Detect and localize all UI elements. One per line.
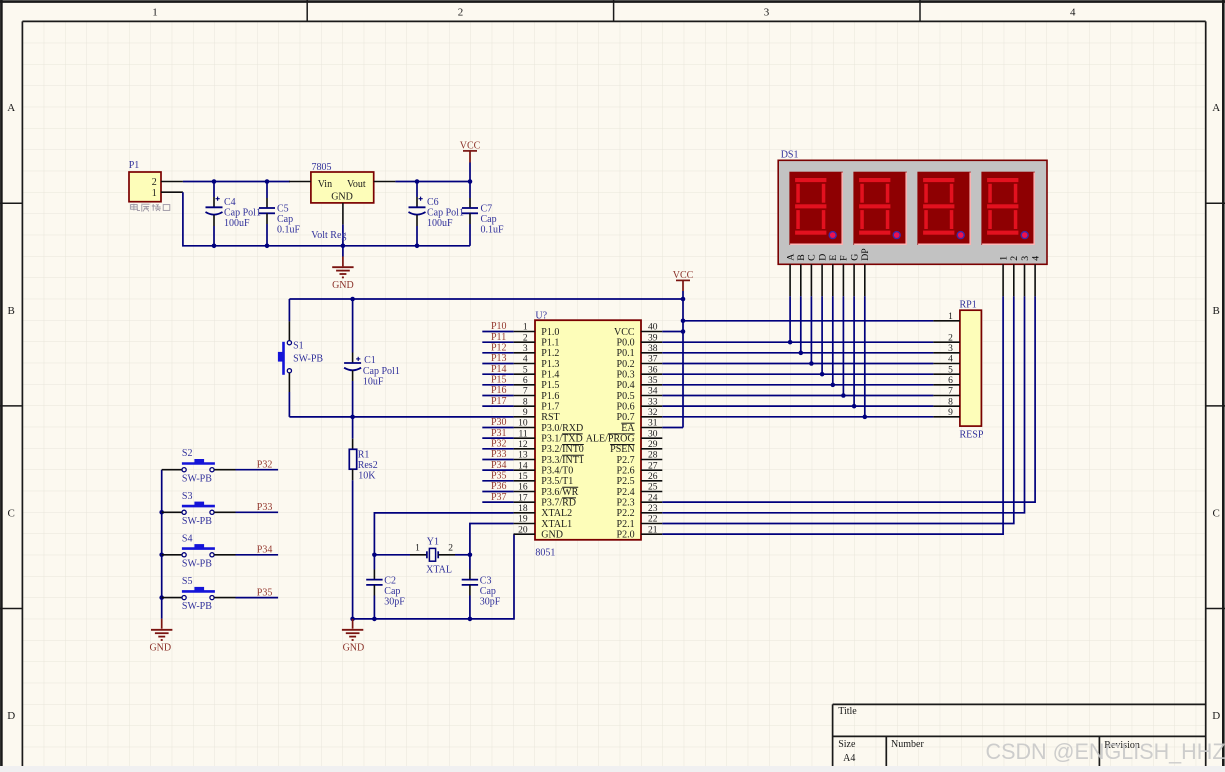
net label P17 xyxy=(482,396,513,407)
svg-text:5: 5 xyxy=(523,365,528,375)
designator C4 xyxy=(224,197,236,208)
svg-text:U?: U? xyxy=(535,310,547,321)
svg-text:P3.6/WR: P3.6/WR xyxy=(541,487,578,498)
comment C7 Cap xyxy=(481,214,497,225)
comment C3 Cap xyxy=(480,586,496,597)
display digit 4 xyxy=(981,172,1035,245)
value C7 0.1uF xyxy=(481,224,505,235)
value C6 100uF xyxy=(427,218,453,229)
svg-text:C7: C7 xyxy=(481,203,493,214)
svg-text:0.1uF: 0.1uF xyxy=(481,224,505,235)
svg-text:27: 27 xyxy=(648,461,658,471)
svg-text:36: 36 xyxy=(648,365,658,375)
svg-text:P37: P37 xyxy=(491,492,507,503)
junction dots key common xyxy=(159,510,164,600)
switch S3 xyxy=(162,502,278,515)
svg-text:19: 19 xyxy=(518,515,528,525)
net label P32 xyxy=(257,459,273,470)
display pin E xyxy=(828,255,839,385)
power port VCC mcu xyxy=(673,270,694,299)
svg-text:XTAL2: XTAL2 xyxy=(541,508,572,519)
svg-text:34: 34 xyxy=(648,387,658,397)
svg-text:39: 39 xyxy=(648,333,658,343)
pin 7 P1.6 xyxy=(514,387,560,402)
svg-text:PSEN: PSEN xyxy=(610,444,634,455)
svg-text:5: 5 xyxy=(948,365,953,375)
junction dots output rail xyxy=(415,179,473,184)
designator R1 xyxy=(358,449,370,460)
net label P15 xyxy=(482,374,513,385)
pin RP1 4 xyxy=(933,355,960,365)
svg-text:F: F xyxy=(839,255,850,261)
wire P0.4 to RP1 pin 6 xyxy=(662,383,933,388)
comment S1 SW-PB xyxy=(293,353,323,364)
pin name overlines xyxy=(562,423,635,498)
comment RP1 RESP xyxy=(960,430,984,441)
svg-text:P0.2: P0.2 xyxy=(617,359,635,370)
pin RP1 3 xyxy=(933,344,960,354)
wire 7805 Vout to VCC node xyxy=(395,181,470,183)
display pin digit 4 xyxy=(1030,256,1041,297)
wire P1 pin1 down to ground rail xyxy=(183,192,343,246)
svg-text:RST: RST xyxy=(541,412,559,423)
capacitor C6 xyxy=(409,182,426,246)
svg-text:P0.0: P0.0 xyxy=(617,338,635,349)
svg-text:P2.3: P2.3 xyxy=(617,498,635,509)
svg-text:C: C xyxy=(807,254,818,261)
pin 15 P3.5/T1 xyxy=(514,472,574,487)
svg-text:13: 13 xyxy=(518,451,528,461)
svg-text:2: 2 xyxy=(458,7,464,19)
svg-text:P1.5: P1.5 xyxy=(541,380,559,391)
svg-text:P1.0: P1.0 xyxy=(541,327,559,338)
svg-text:1: 1 xyxy=(415,544,420,554)
column label 2 xyxy=(458,7,464,19)
net label P16 xyxy=(482,385,513,396)
svg-text:D: D xyxy=(7,710,15,722)
svg-text:P0.4: P0.4 xyxy=(617,380,635,391)
designator C6 xyxy=(427,197,439,208)
svg-text:17: 17 xyxy=(518,493,528,503)
svg-text:1: 1 xyxy=(523,323,528,333)
switch S2 xyxy=(162,459,278,472)
wire P2.2 to display digit 3 xyxy=(662,296,1024,513)
wire P0.7 to RP1 pin 9 xyxy=(662,415,933,420)
svg-text:C4: C4 xyxy=(224,197,236,208)
svg-text:10uF: 10uF xyxy=(363,376,384,387)
value C1 10uF xyxy=(363,376,384,387)
net label P14 xyxy=(482,364,513,375)
svg-text:1: 1 xyxy=(998,256,1009,261)
title block label Size xyxy=(838,739,856,750)
resistor R1 xyxy=(349,417,356,619)
svg-text:1: 1 xyxy=(152,188,157,199)
comment C4 Cap Pol1 xyxy=(224,207,261,218)
pin 5 P1.4 xyxy=(514,365,560,380)
designator 7805 xyxy=(312,162,332,173)
pin 31 EA xyxy=(621,419,662,434)
svg-text:C3: C3 xyxy=(480,575,492,586)
svg-text:P2.4: P2.4 xyxy=(617,487,635,498)
svg-text:0.1uF: 0.1uF xyxy=(277,224,301,235)
ground symbol crystal xyxy=(342,619,364,654)
display digit 2 xyxy=(853,172,907,245)
designator C3 xyxy=(480,575,492,586)
designator S5 xyxy=(182,576,193,587)
net label P32 xyxy=(482,438,513,449)
pin 38 P0.1 xyxy=(617,344,663,359)
connector P1 xyxy=(129,172,183,202)
svg-text:GND: GND xyxy=(332,280,354,291)
junction dots crystal rails xyxy=(372,553,472,558)
wire P0.0 to RP1 pin 2 xyxy=(662,340,933,345)
svg-text:P2.6: P2.6 xyxy=(617,466,635,477)
svg-text:12: 12 xyxy=(518,440,528,450)
wire VCC vertical to EA xyxy=(682,299,684,427)
svg-text:P0.3: P0.3 xyxy=(617,370,635,381)
svg-text:C2: C2 xyxy=(384,575,396,586)
designator P1 xyxy=(129,160,140,171)
svg-text:P1.1: P1.1 xyxy=(541,338,559,349)
comment C1 Cap Pol1 xyxy=(363,366,400,377)
svg-text:EA: EA xyxy=(621,423,635,434)
svg-text:E: E xyxy=(828,255,839,261)
row label C left xyxy=(8,507,15,519)
pin 18 XTAL2 xyxy=(514,504,573,519)
svg-text:100uF: 100uF xyxy=(427,218,453,229)
svg-text:P32: P32 xyxy=(491,438,507,449)
comment S4 SW-PB xyxy=(182,558,212,569)
pin 9 RST xyxy=(514,408,560,423)
svg-text:S2: S2 xyxy=(182,448,193,459)
comment S2 SW-PB xyxy=(182,473,212,484)
pin 17 P3.7/RD xyxy=(514,493,576,508)
title block frame xyxy=(833,704,1206,766)
svg-text:Cap: Cap xyxy=(277,214,293,225)
svg-text:SW-PB: SW-PB xyxy=(182,473,212,484)
svg-text:ALE/PROG: ALE/PROG xyxy=(586,434,635,445)
designator S2 xyxy=(182,448,193,459)
pin number Y1 2 xyxy=(448,544,453,554)
svg-text:P35: P35 xyxy=(491,470,507,481)
svg-text:P34: P34 xyxy=(257,545,273,556)
value C4 100uF xyxy=(224,218,250,229)
svg-text:P3.2/INT0: P3.2/INT0 xyxy=(541,444,584,455)
value C5 0.1uF xyxy=(277,224,301,235)
svg-text:P0.1: P0.1 xyxy=(617,348,635,359)
pin RP1 7 xyxy=(933,387,960,397)
svg-text:P3.3/INT1: P3.3/INT1 xyxy=(541,455,584,466)
svg-text:P2.2: P2.2 xyxy=(617,508,635,519)
svg-text:P0.7: P0.7 xyxy=(617,412,635,423)
switch S4 xyxy=(162,544,278,557)
pin 1 P1.0 xyxy=(514,323,560,338)
net label P13 xyxy=(482,353,513,364)
pin number Y1 1 xyxy=(415,544,420,554)
junction dot RST rail xyxy=(350,415,355,420)
svg-text:P1.6: P1.6 xyxy=(541,391,559,402)
svg-text:Size: Size xyxy=(838,739,856,750)
wire P0.5 to RP1 pin 7 xyxy=(662,393,933,398)
crystal Y1 xyxy=(374,548,470,561)
row label D left xyxy=(7,710,15,722)
junction dots input rails xyxy=(212,179,420,248)
svg-text:35: 35 xyxy=(648,376,658,386)
pin RP1 9 xyxy=(933,408,960,418)
row label A right xyxy=(1212,102,1220,114)
svg-text:C: C xyxy=(1213,507,1220,519)
svg-text:11: 11 xyxy=(518,429,527,439)
svg-text:P31: P31 xyxy=(491,428,507,439)
svg-text:6: 6 xyxy=(948,376,953,386)
designator C5 xyxy=(277,203,289,214)
pin 21 P2.0 xyxy=(617,525,663,540)
row label D right xyxy=(1212,710,1220,722)
svg-text:Number: Number xyxy=(891,739,924,750)
svg-text:P32: P32 xyxy=(257,459,273,470)
resistor pack RP1 body xyxy=(960,310,982,426)
svg-text:Res2: Res2 xyxy=(358,460,378,471)
svg-text:P3.5/T1: P3.5/T1 xyxy=(541,476,573,487)
row label C right xyxy=(1213,507,1220,519)
pin 35 P0.4 xyxy=(617,376,663,391)
display pin digit 2 xyxy=(1009,256,1020,297)
pin 13 P3.3/INT1 xyxy=(514,451,584,466)
display pin C xyxy=(807,254,818,363)
wire P2.1 to display digit 2 xyxy=(662,296,1014,523)
svg-text:VCC: VCC xyxy=(673,270,694,281)
pin 16 P3.6/WR xyxy=(514,483,579,498)
svg-text:30pF: 30pF xyxy=(480,597,501,608)
svg-text:32: 32 xyxy=(648,408,658,418)
svg-text:A: A xyxy=(1212,102,1220,114)
svg-text:GND: GND xyxy=(541,530,563,541)
svg-text:D: D xyxy=(1212,710,1220,722)
net label P35 xyxy=(257,587,273,598)
svg-text:Vin: Vin xyxy=(318,179,332,190)
designator S1 xyxy=(293,340,304,351)
wire VCC rail to reset network xyxy=(289,298,683,300)
svg-text:G: G xyxy=(849,254,860,261)
svg-text:SW-PB: SW-PB xyxy=(182,516,212,527)
pin 25 P2.4 xyxy=(617,483,663,498)
wire P0.2 to RP1 pin 4 xyxy=(662,361,933,366)
svg-text:10: 10 xyxy=(518,419,528,429)
display pin G xyxy=(849,254,860,406)
svg-text:18: 18 xyxy=(518,504,528,514)
pin RP1 1 xyxy=(933,312,960,322)
svg-text:3: 3 xyxy=(948,344,953,354)
svg-text:XTAL: XTAL xyxy=(426,565,452,576)
svg-text:P11: P11 xyxy=(491,332,506,343)
svg-text:P2.0: P2.0 xyxy=(617,530,635,541)
svg-text:Cap Pol1: Cap Pol1 xyxy=(224,207,261,218)
net label P34 xyxy=(482,460,513,471)
svg-text:SW-PB: SW-PB xyxy=(182,558,212,569)
display DS1 body xyxy=(778,160,1047,264)
svg-text:14: 14 xyxy=(518,461,528,471)
svg-text:VCC: VCC xyxy=(460,140,481,151)
capacitor C2 xyxy=(366,555,382,619)
svg-text:P33: P33 xyxy=(257,502,273,513)
svg-text:3: 3 xyxy=(523,344,528,354)
net label P11 xyxy=(482,332,513,343)
svg-text:Cap: Cap xyxy=(481,214,497,225)
svg-text:Y1: Y1 xyxy=(427,536,439,547)
column label 4 xyxy=(1070,7,1076,19)
svg-text:21: 21 xyxy=(648,525,658,535)
svg-text:15: 15 xyxy=(518,472,528,482)
pin 28 P2.7 xyxy=(617,451,663,466)
value C2 30pF xyxy=(384,597,405,608)
svg-text:25: 25 xyxy=(648,483,658,493)
display pin DP xyxy=(860,248,871,417)
wire XTAL2 to crystal left xyxy=(374,513,513,555)
svg-text:7: 7 xyxy=(523,387,528,397)
capacitor C7 xyxy=(462,182,478,246)
svg-text:7: 7 xyxy=(948,387,953,397)
title block label Revision xyxy=(1104,740,1140,751)
svg-text:B: B xyxy=(796,254,807,261)
svg-text:P1.2: P1.2 xyxy=(541,348,559,359)
svg-text:Volt Reg: Volt Reg xyxy=(311,230,346,241)
comment dianyuanjiekou (power connector) xyxy=(131,204,170,212)
svg-text:10K: 10K xyxy=(358,471,376,482)
display pin B xyxy=(796,254,807,353)
net label P10 xyxy=(482,321,513,332)
svg-text:1: 1 xyxy=(948,312,953,322)
net label P36 xyxy=(482,481,513,492)
wire P2.0 to display digit 1 xyxy=(662,296,1003,534)
svg-text:37: 37 xyxy=(648,355,658,365)
svg-text:6: 6 xyxy=(523,376,528,386)
designator C7 xyxy=(481,203,493,214)
svg-text:P2.7: P2.7 xyxy=(617,455,635,466)
display pin digit 1 xyxy=(998,256,1009,297)
pin 8 P1.7 xyxy=(514,397,560,412)
svg-text:C6: C6 xyxy=(427,197,439,208)
pin 36 P0.3 xyxy=(617,365,663,380)
pin RP1 8 xyxy=(933,397,960,407)
svg-text:RESP: RESP xyxy=(960,430,984,441)
pin 6 P1.5 xyxy=(514,376,560,391)
svg-text:3: 3 xyxy=(1020,256,1031,261)
svg-text:Cap: Cap xyxy=(384,586,400,597)
svg-text:Cap Pol1: Cap Pol1 xyxy=(427,207,464,218)
svg-text:Cap Pol1: Cap Pol1 xyxy=(363,366,400,377)
display digit 3 xyxy=(917,172,971,245)
junction dots VCC vertical xyxy=(681,319,686,334)
svg-text:P34: P34 xyxy=(491,460,507,471)
capacitor C3 xyxy=(462,555,478,619)
designator S4 xyxy=(182,533,193,544)
svg-text:CSDN @ENGLISH_HHZ: CSDN @ENGLISH_HHZ xyxy=(986,739,1225,764)
svg-text:16: 16 xyxy=(518,483,528,493)
svg-text:P0.5: P0.5 xyxy=(617,391,635,402)
svg-text:P1.7: P1.7 xyxy=(541,402,559,413)
wire P0.1 to RP1 pin 3 xyxy=(662,351,933,356)
net label P34 xyxy=(257,545,273,556)
comment U? 8051 xyxy=(535,548,555,559)
svg-text:2: 2 xyxy=(523,333,528,343)
comment Y1 XTAL xyxy=(426,565,452,576)
svg-text:P10: P10 xyxy=(491,321,507,332)
svg-text:P36: P36 xyxy=(491,481,507,492)
wire EA to VCC vertical xyxy=(662,426,683,428)
svg-text:XTAL1: XTAL1 xyxy=(541,519,572,530)
designator S3 xyxy=(182,491,193,502)
top margin dividers xyxy=(307,0,920,21)
svg-text:8051: 8051 xyxy=(535,548,555,559)
svg-text:38: 38 xyxy=(648,344,658,354)
designator Y1 xyxy=(427,536,439,547)
wire P0.6 to RP1 pin 8 xyxy=(662,404,933,409)
svg-text:P2.5: P2.5 xyxy=(617,476,635,487)
comment S5 SW-PB xyxy=(182,601,212,612)
svg-text:S3: S3 xyxy=(182,491,193,502)
wire P2.3 to display digit 4 xyxy=(662,296,1035,502)
pin RP1 5 xyxy=(933,365,960,375)
ground symbol key common xyxy=(149,619,172,654)
svg-text:3: 3 xyxy=(764,7,770,19)
pin 4 P1.3 xyxy=(514,355,560,370)
svg-text:30pF: 30pF xyxy=(384,597,405,608)
pin 22 P2.1 xyxy=(617,515,663,530)
svg-text:P1.3: P1.3 xyxy=(541,359,559,370)
svg-text:P3.0/RXD: P3.0/RXD xyxy=(541,423,583,434)
mcu U? body xyxy=(535,320,641,540)
svg-text:30: 30 xyxy=(648,429,658,439)
pin 14 P3.4/T0 xyxy=(514,461,574,476)
comment R1 Res2 xyxy=(358,460,378,471)
net label P12 xyxy=(482,342,513,353)
pin 34 P0.5 xyxy=(617,387,663,402)
power port VCC input rail xyxy=(460,140,481,181)
wire P1 pin2 to 7805 Vin xyxy=(183,181,290,183)
pin RP1 6 xyxy=(933,376,960,386)
svg-text:9: 9 xyxy=(948,408,953,418)
svg-text:4: 4 xyxy=(948,355,953,365)
designator U? xyxy=(535,310,547,321)
wire P0.3 to RP1 pin 5 xyxy=(662,372,933,377)
svg-text:Vout: Vout xyxy=(347,179,366,190)
wire RP1 pin1 to VCC xyxy=(683,320,933,322)
svg-text:4: 4 xyxy=(1030,256,1041,261)
wire crystal ground rail xyxy=(353,534,514,619)
svg-text:29: 29 xyxy=(648,440,658,450)
svg-text:23: 23 xyxy=(648,504,658,514)
svg-text:P3.7/RD: P3.7/RD xyxy=(541,498,576,509)
pin 32 P0.7 xyxy=(617,408,663,423)
svg-text:P13: P13 xyxy=(491,353,507,364)
title block label Title xyxy=(838,706,857,717)
pin 10 P3.0/RXD xyxy=(514,419,584,434)
designator DS1 xyxy=(781,150,799,161)
svg-text:4: 4 xyxy=(523,355,528,365)
net label P30 xyxy=(482,417,513,428)
svg-text:8: 8 xyxy=(948,397,953,407)
pin 27 P2.6 xyxy=(617,461,663,476)
title block label Number xyxy=(891,739,924,750)
svg-text:B: B xyxy=(8,305,15,317)
svg-text:28: 28 xyxy=(648,451,658,461)
title block value A4 xyxy=(843,753,855,764)
svg-text:A: A xyxy=(7,102,15,114)
capacitor C4 xyxy=(206,182,223,246)
svg-text:RP1: RP1 xyxy=(960,300,977,311)
row label B left xyxy=(8,305,15,317)
svg-text:S5: S5 xyxy=(182,576,193,587)
